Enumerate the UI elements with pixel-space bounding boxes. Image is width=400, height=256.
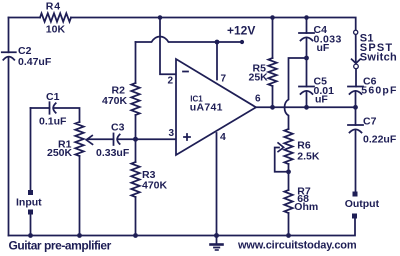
wire pin4 to ground [216,133,218,236]
resistor R6 [284,129,292,164]
R6 wiper arrow [278,143,284,152]
wire C4 top lead [306,18,308,34]
output terminal upper [353,192,358,197]
node gnd-gnd [214,233,219,238]
switch S1 arrowhead [352,59,361,63]
svg-text:470K: 470K [142,180,168,192]
capacitor C1 [49,102,51,114]
svg-text:3: 3 [169,128,175,139]
op-amp minus sign [183,71,188,73]
svg-text:Input: Input [16,197,42,209]
svg-text:C1: C1 [46,91,60,103]
wire input branch lower [30,215,32,236]
svg-text:uF: uF [317,42,330,54]
wire pin7 [216,42,218,80]
wire +12V with hop [136,36,243,42]
svg-text:2.5K: 2.5K [297,151,320,163]
node +12V terminal [240,40,244,44]
wire C7 to output [355,130,357,192]
op-amp plus sign [184,134,190,140]
node gnd-R3 [133,233,138,238]
wire C4 to C5 [306,38,308,87]
wire top rail right [71,18,356,31]
svg-text:Guitar pre-amplifier: Guitar pre-amplifier [9,238,112,252]
wire R6 bottom [288,164,290,190]
output terminal lower [352,214,357,219]
wire input branch upper [30,108,32,190]
node gnd-R7 [286,233,291,238]
capacitor C3 [113,133,115,145]
switch S1 top contact [354,30,358,34]
ground symbol [216,236,218,244]
wire R7 bottom [288,213,290,236]
wire R2 bottom [135,115,137,139]
wire left branch lower [8,58,10,236]
wire R3 top lead [135,139,137,162]
svg-text:uA741: uA741 [190,102,223,114]
svg-text:10K: 10K [46,24,66,36]
switch S1 bottom contact [354,64,359,69]
node gnd-R1 [77,233,82,238]
wire C3 to pin3 node [117,138,176,140]
svg-text:4: 4 [220,131,226,143]
node rail-R5 [270,15,275,20]
wire R6 wiper loop [275,148,289,172]
wire R5 top lead [272,18,274,59]
resistor R4 [40,13,71,21]
wire C5 bottom [306,92,308,108]
node rail-pin2 [158,15,163,20]
node R6-wiper [286,169,291,174]
R1 wiper arrow [86,136,92,145]
resistor R2 [131,83,139,115]
node bus-C5 [304,105,309,110]
svg-text:R4: R4 [46,1,61,13]
capacitor C4 [299,32,314,34]
capacitor C6 [348,86,363,88]
ground rail [9,219,356,236]
resistor R5 [268,58,276,86]
svg-text:C3: C3 [111,122,125,134]
wire C1 box top [31,107,50,109]
node rail-C4 [304,15,309,20]
switch S1 blade [355,35,357,63]
node C4-C5 [304,56,309,61]
wire R5 bottom [272,86,274,107]
wire pin6 bus [256,106,356,108]
capacitor C7 [348,124,363,126]
svg-text:R6: R6 [297,139,311,151]
wire R2 top from +12V line [135,42,137,83]
wire wiper to C3 [88,138,114,140]
svg-text:www.circuitstoday.com: www.circuitstoday.com [237,240,357,252]
node bus-C6C7 [353,105,358,110]
svg-text:+12V: +12V [227,24,255,38]
svg-text:25K: 25K [249,71,269,83]
node +12V-pin7 [215,40,220,45]
wire C1 to R1 top [53,108,79,122]
resistor R7 [284,190,292,213]
svg-text:Ohm: Ohm [294,201,318,213]
svg-text:0.47uF: 0.47uF [18,56,52,68]
input terminal upper [28,190,33,195]
wire bus to C7 [355,107,357,125]
svg-text:6: 6 [255,94,261,105]
svg-text:uF: uF [315,94,328,106]
wire R3 bottom [135,197,137,236]
wire pin2 branch [160,18,176,75]
svg-text:560pF: 560pF [361,85,397,97]
svg-text:250K: 250K [47,147,73,159]
node bus-R5 [270,105,275,110]
resistor R3 [131,162,139,197]
svg-text:7: 7 [221,73,227,84]
node gnd-input [28,233,33,238]
svg-text:0.33uF: 0.33uF [96,147,130,159]
svg-text:Output: Output [345,198,380,210]
wire left branch upper [8,18,10,53]
wire top rail left [9,17,41,19]
svg-text:0.22uF: 0.22uF [363,134,397,146]
resistor R1 [75,122,83,156]
node pin3 [133,137,138,142]
input terminal lower [28,210,33,215]
wire C4C5 node to R6 branch with hop [285,58,307,129]
svg-text:470K: 470K [102,95,128,107]
svg-text:C7: C7 [363,116,377,128]
wire C6 to bus [355,92,357,108]
svg-text:2: 2 [168,76,174,87]
wire R1 bottom [79,156,81,236]
capacitor C5 [299,86,314,88]
op-amp U1 triangle [176,59,256,155]
wire switch to C6 [355,69,357,87]
capacitor C2 [2,51,16,53]
svg-text:Switch: Switch [360,52,397,64]
svg-text:0.1uF: 0.1uF [39,115,67,127]
